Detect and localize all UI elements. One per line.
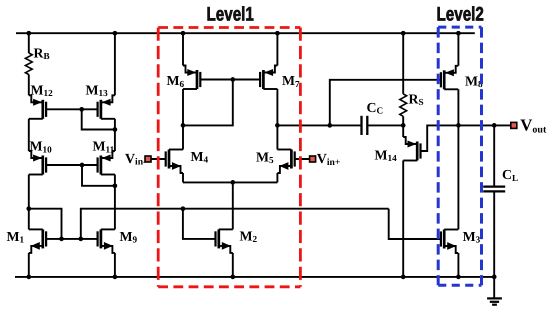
node M6 VDD bbox=[181, 31, 186, 36]
wire M9 source to GND bbox=[114, 253, 116, 277]
wire CC to RS node bbox=[367, 124, 403, 126]
wire mirror gate tie to M4 drain bbox=[183, 80, 233, 126]
wire tail to M2 drain bbox=[232, 182, 234, 229]
wire bias line jog to M3 gate bbox=[389, 209, 441, 239]
terminal Vout bbox=[511, 122, 517, 128]
svg-text:Level1: Level1 bbox=[207, 4, 254, 26]
wire M14 source to node bbox=[402, 125, 404, 137]
wire M3 source to GND bbox=[457, 253, 459, 277]
wire M1 source to GND bbox=[28, 253, 30, 277]
wire M7 drain to M5 drain bbox=[276, 89, 278, 150]
node M12/M13 gates bbox=[79, 107, 84, 112]
node M12 VDD (RB top) bbox=[26, 31, 31, 36]
wire M10 drain to M1 drain bbox=[28, 175, 30, 230]
node M14 GND bbox=[401, 275, 406, 280]
ground symbol bbox=[487, 277, 502, 305]
node M1 GND bbox=[26, 275, 31, 280]
node output bbox=[456, 123, 461, 128]
terminal Vin+ bbox=[310, 156, 316, 162]
capacitor CL bbox=[483, 187, 505, 192]
wire M14 gate to output bbox=[421, 125, 459, 151]
resistor RS bbox=[400, 33, 407, 125]
node M7 VDD bbox=[275, 31, 280, 36]
wire tail line bbox=[183, 181, 277, 183]
node M6/M7 gates bbox=[230, 77, 235, 82]
wire GND bottom rail bbox=[15, 276, 494, 278]
capacitor CC bbox=[362, 116, 368, 135]
resistor RB bbox=[25, 33, 32, 95]
transistor M9 bbox=[98, 229, 115, 253]
wire M9 gate to bias line bbox=[81, 209, 389, 239]
wire M5 gate to Vin+ terminal bbox=[295, 158, 313, 160]
wire M2 source to GND bbox=[232, 253, 234, 277]
Level1 dashed box bbox=[158, 28, 300, 287]
svg-text:Level2: Level2 bbox=[437, 4, 484, 26]
wire M5 source to tail bbox=[276, 173, 278, 182]
wire M7 source to VDD bbox=[276, 33, 278, 65]
node M2 GND bbox=[230, 275, 235, 280]
transistor M13 bbox=[98, 95, 115, 119]
Level2 dashed box bbox=[438, 27, 481, 285]
wire M13 source to VDD bbox=[114, 33, 116, 95]
wire M4 gate to Vin- terminal bbox=[149, 158, 166, 160]
transistor M11 bbox=[98, 151, 115, 175]
transistor M10 bbox=[29, 151, 46, 175]
wire M11 drain to M9 drain bbox=[114, 175, 116, 230]
wire M4 source to tail bbox=[182, 173, 184, 182]
node M11 drain tie bbox=[113, 183, 118, 188]
transistor M7 bbox=[260, 66, 277, 90]
wire M12 drain to M10 source bbox=[28, 119, 30, 151]
node M1 gate bbox=[59, 237, 64, 242]
transistor M3 bbox=[441, 230, 458, 254]
wire M10 gate to M11 gate bbox=[46, 164, 98, 166]
node M13 VDD bbox=[113, 31, 118, 36]
wire output to Vout terminal bbox=[458, 124, 511, 126]
node CL top bbox=[492, 123, 497, 128]
wire M13 drain to M11 source bbox=[114, 119, 116, 151]
wire M12 gate to M13 gate bbox=[46, 108, 98, 110]
transistor M2 bbox=[216, 229, 233, 253]
node M8 VDD bbox=[456, 31, 461, 36]
transistor M5 bbox=[277, 150, 294, 174]
node M9 GND bbox=[113, 275, 118, 280]
node tail bbox=[230, 180, 235, 185]
wire M1 diode tie bbox=[29, 209, 62, 239]
node M3 GND bbox=[456, 275, 461, 280]
wire M2 gate to bias line bbox=[183, 209, 216, 239]
wire VDD top rail bbox=[16, 32, 475, 34]
transistor M6 bbox=[183, 66, 200, 90]
node M8 gate branch bbox=[327, 123, 332, 128]
wire CL bottom lead bbox=[493, 191, 495, 277]
wire first stage output to CC bbox=[277, 124, 361, 126]
wire branch to M8 gate bbox=[330, 80, 441, 126]
node M2 gate tap bbox=[181, 206, 186, 211]
node M13 drain tie bbox=[113, 127, 118, 132]
wire M6 gate to M7 gate bbox=[200, 79, 260, 81]
node M9 gate bbox=[78, 237, 83, 242]
node first stage output bbox=[275, 123, 280, 128]
node GND right end bbox=[492, 275, 497, 280]
node M10/M11 gates bbox=[80, 163, 85, 168]
wire CL top lead bbox=[493, 125, 495, 186]
wire M8 drain to M3 drain bbox=[457, 89, 459, 229]
node M1 drain tap bbox=[26, 206, 31, 211]
wire M1 gate to M9 gate bbox=[46, 238, 98, 240]
wire M8 source to VDD bbox=[457, 33, 459, 66]
node compensation bbox=[401, 123, 406, 128]
transistor M8 bbox=[441, 66, 458, 90]
wire gate tie to M11 drain bbox=[82, 165, 115, 186]
wire gate tie to M13 drain bbox=[82, 109, 115, 129]
node RS VDD bbox=[401, 31, 406, 36]
terminal Vin- bbox=[145, 156, 151, 162]
transistor M4 bbox=[166, 150, 183, 174]
transistor M12 bbox=[29, 95, 46, 119]
wire M6 drain to M4 drain bbox=[182, 89, 184, 150]
transistor M1 bbox=[29, 229, 46, 253]
node M4 drain bbox=[181, 123, 186, 128]
wire M14 drain to GND bbox=[402, 161, 404, 277]
wire M6 source to VDD bbox=[182, 33, 184, 65]
transistor M14 bbox=[403, 137, 420, 161]
